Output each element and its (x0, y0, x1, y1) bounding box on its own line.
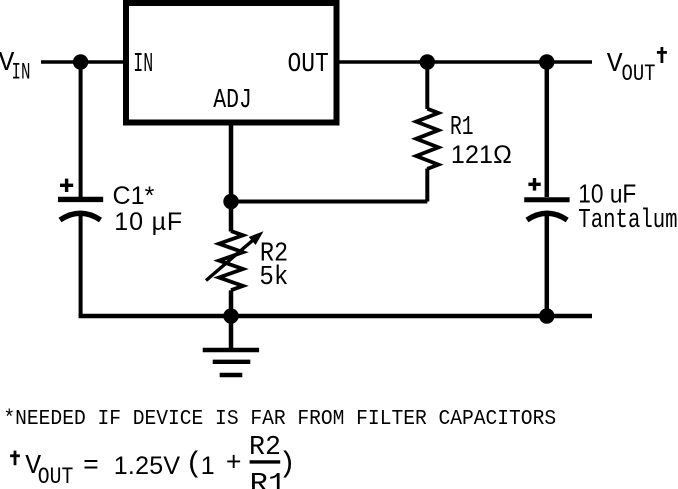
svg-text:121Ω: 121Ω (451, 141, 512, 169)
svg-text:IN: IN (12, 60, 31, 86)
svg-text:V: V (607, 49, 623, 79)
svg-text:1.25V: 1.25V (114, 452, 181, 480)
svg-text:*NEEDED IF DEVICE IS FAR FROM: *NEEDED IF DEVICE IS FAR FROM FILTER CAP… (3, 408, 556, 431)
svg-text:5k: 5k (259, 262, 288, 292)
svg-text:OUT: OUT (288, 49, 329, 79)
svg-text:R1: R1 (450, 112, 474, 142)
svg-text:=: = (83, 451, 99, 481)
svg-text:C1*: C1* (113, 182, 155, 210)
svg-text:R2: R2 (249, 432, 281, 462)
svg-text:Tantalum: Tantalum (578, 205, 677, 235)
svg-text:OUT: OUT (622, 61, 656, 87)
svg-text:OUT: OUT (38, 464, 74, 489)
svg-text:1: 1 (201, 452, 215, 480)
svg-text:IN: IN (133, 49, 153, 79)
svg-text:): ) (279, 447, 296, 480)
svg-text:10 µF: 10 µF (114, 208, 182, 236)
svg-text:+: + (226, 449, 242, 479)
svg-text:ADJ: ADJ (213, 85, 252, 115)
svg-text:10 uF: 10 uF (578, 178, 636, 208)
